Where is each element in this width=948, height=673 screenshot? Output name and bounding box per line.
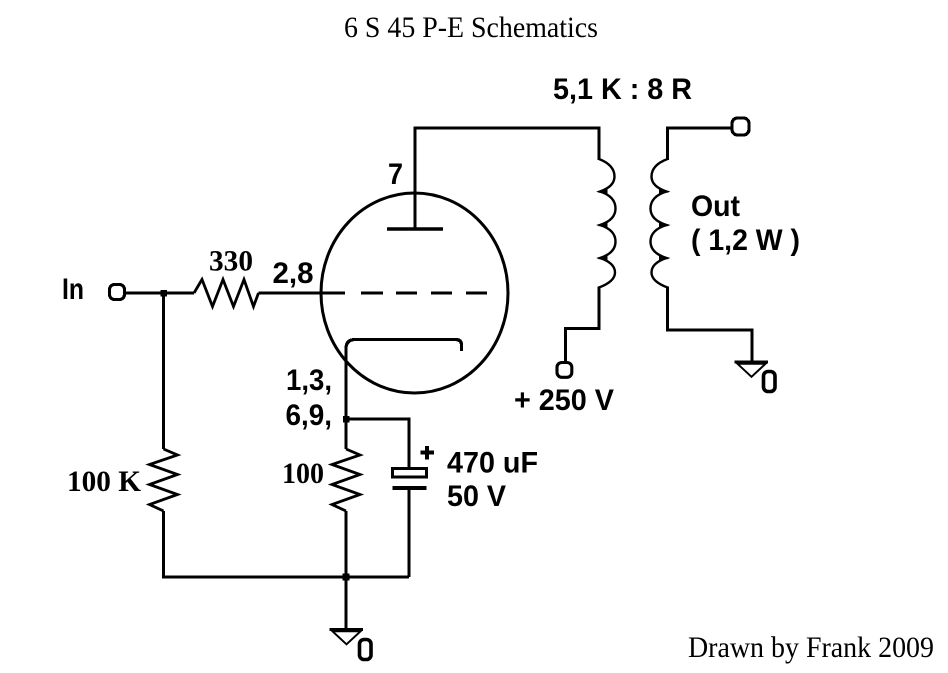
tube cathode	[346, 340, 462, 420]
resistor 100 K (grid leak)	[150, 449, 178, 511]
svg-text:2,8: 2,8	[273, 257, 314, 290]
svg-text:5,1 K : 8 R: 5,1 K : 8 R	[553, 73, 692, 106]
junction node at In branch	[161, 290, 168, 297]
wire cathode junction to capacitor	[346, 419, 409, 469]
svg-text:50 V: 50 V	[447, 480, 506, 513]
svg-text:Drawn by Frank 2009: Drawn by Frank 2009	[688, 631, 934, 664]
svg-text:( 1,2 W ): ( 1,2 W )	[691, 224, 800, 257]
svg-text:100 K: 100 K	[67, 465, 142, 498]
svg-text:6,9,: 6,9,	[286, 399, 333, 432]
ground (output)	[735, 361, 769, 364]
svg-text:In: In	[62, 273, 84, 306]
wire capacitor to bottom rail	[407, 489, 410, 577]
capacitor C1 top plate	[393, 469, 427, 478]
junction node at cathode	[343, 416, 350, 423]
bottom rail wire	[162, 575, 409, 578]
wire primary bottom to +250V terminal	[566, 287, 600, 363]
svg-text:330: 330	[209, 245, 253, 278]
ground (main)	[330, 628, 364, 631]
terminal +250V	[557, 363, 572, 378]
terminal Out	[732, 118, 749, 135]
wire 100 resistor to bottom rail	[344, 511, 347, 577]
svg-text:7: 7	[388, 158, 403, 191]
wire plate to transformer primary	[415, 128, 599, 229]
capacitor 470uF plus mark	[421, 451, 435, 455]
wire secondary top to Out terminal	[668, 128, 733, 160]
svg-text:Out: Out	[691, 190, 740, 223]
wire resistor to tube grid	[259, 291, 346, 294]
svg-text:470 uF: 470 uF	[447, 447, 538, 480]
svg-text:100: 100	[282, 457, 324, 490]
tube V1 envelope	[321, 193, 508, 393]
input terminal In	[110, 285, 125, 300]
resistor 330 (grid stopper)	[194, 280, 259, 307]
wire In terminal to grid resistor	[126, 291, 194, 294]
ground stem wire	[344, 577, 347, 629]
svg-text:+ 250 V: + 250 V	[514, 384, 614, 417]
node 0 label (output ground)	[764, 372, 776, 392]
wire secondary bottom to ground	[668, 287, 753, 362]
wire left branch down from In junction	[162, 293, 165, 449]
resistor 100 (cathode bias)	[332, 449, 360, 511]
junction node at bottom rail	[343, 574, 350, 581]
transformer secondary winding	[651, 159, 668, 288]
wire cathode to 100 resistor	[344, 419, 347, 449]
svg-text:1,3,: 1,3,	[286, 364, 332, 397]
node 0 label (main ground)	[360, 640, 372, 660]
svg-text:6 S 45 P-E Schematics: 6 S 45 P-E Schematics	[344, 11, 598, 44]
wire 100K to bottom rail	[162, 511, 165, 579]
tube grid (dashed)	[361, 291, 383, 294]
tube plate (anode)	[387, 227, 443, 231]
transformer primary winding	[599, 159, 616, 288]
capacitor C1 bottom plate	[393, 486, 427, 490]
